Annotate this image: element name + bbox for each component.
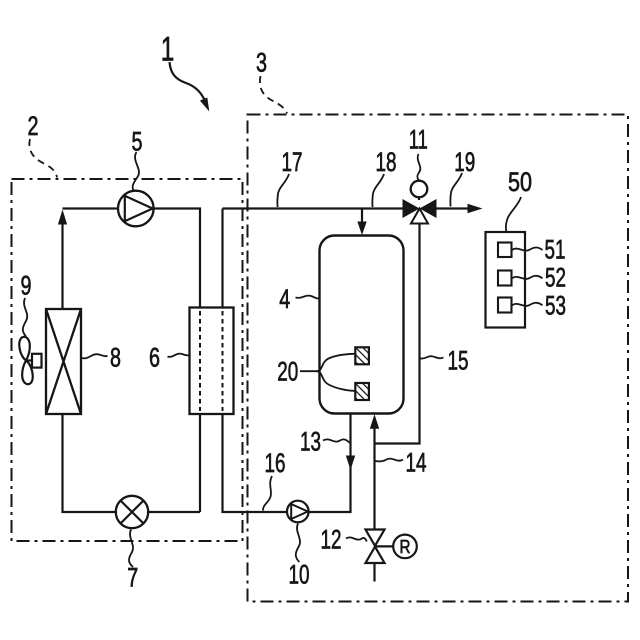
svg-text:1: 1 — [161, 31, 175, 69]
svg-text:6: 6 — [149, 342, 160, 372]
svg-text:50: 50 — [508, 167, 532, 197]
svg-text:19: 19 — [454, 147, 475, 177]
svg-text:14: 14 — [406, 448, 427, 478]
svg-text:15: 15 — [448, 346, 469, 376]
svg-text:18: 18 — [376, 147, 397, 177]
svg-text:17: 17 — [282, 147, 303, 177]
svg-text:53: 53 — [545, 290, 566, 320]
svg-text:13: 13 — [300, 426, 321, 456]
svg-text:7: 7 — [127, 562, 138, 592]
svg-text:10: 10 — [289, 559, 310, 589]
svg-text:16: 16 — [265, 448, 286, 478]
svg-text:5: 5 — [132, 126, 143, 156]
svg-text:4: 4 — [279, 284, 290, 314]
svg-text:52: 52 — [545, 262, 566, 292]
svg-text:20: 20 — [277, 356, 298, 386]
svg-text:9: 9 — [21, 271, 32, 301]
svg-text:3: 3 — [256, 47, 267, 77]
svg-text:11: 11 — [409, 125, 428, 155]
svg-text:R: R — [400, 536, 411, 557]
svg-text:8: 8 — [110, 342, 121, 372]
svg-text:2: 2 — [28, 111, 39, 141]
svg-text:51: 51 — [545, 234, 566, 264]
svg-text:12: 12 — [321, 525, 342, 555]
